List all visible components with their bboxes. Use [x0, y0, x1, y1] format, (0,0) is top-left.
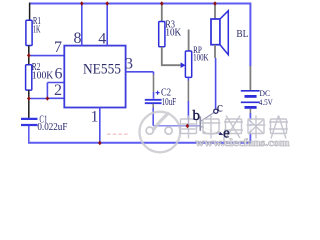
wire: node down to C1 [28, 99, 30, 119]
svg-text:2: 2 [54, 82, 62, 99]
svg-text:1K: 1K [33, 24, 41, 35]
wire: pin 7 [29, 55, 65, 57]
plus sign of C2 [156, 91, 160, 95]
svg-text:100K: 100K [32, 70, 54, 81]
wire: pin3 corner down to C2 [153, 72, 155, 75]
svg-text:100K: 100K [193, 53, 209, 63]
speaker BL [214, 4, 216, 19]
junction node: speaker on rail [213, 1, 217, 6]
wire: pin6/pin2 vertical link [46, 83, 48, 99]
watermark pink dashes [107, 133, 128, 135]
junction node: R2/C1/pin2 [27, 96, 31, 101]
transistor Q1 base bar [199, 117, 201, 131]
wire: pin 8 [81, 4, 83, 46]
resistor R2 [26, 65, 32, 90]
svg-text:6: 6 [55, 65, 63, 82]
capacitor C2 [145, 99, 162, 101]
wire: pin 1 to ground [99, 108, 101, 143]
svg-text:www.elecfans.com: www.elecfans.com [196, 138, 290, 149]
potentiometer RP [188, 30, 190, 52]
svg-text:10K: 10K [165, 28, 182, 39]
svg-text:3: 3 [125, 56, 133, 73]
op-amp U1: NE555 timer box [64, 46, 125, 108]
wire: R2 down to node [28, 90, 30, 98]
wire: R3 bottom to wiper [162, 47, 181, 65]
resistor R3 [161, 4, 163, 22]
capacitor C1 [21, 118, 38, 120]
battery DC 4.5V [241, 90, 260, 92]
wire: pin 3 output [126, 71, 154, 73]
wire: top supply rail [30, 4, 251, 67]
wire: C2 down to transistor base [152, 104, 154, 108]
watermark CJK text approximation [179, 116, 288, 139]
wire: emitter to ground [223, 137, 225, 143]
junction node: pin6/pin2 link [46, 96, 50, 101]
transistor emitter line [200, 126, 221, 134]
svg-text:4.5V: 4.5V [259, 97, 274, 107]
transistor emitter arrow [219, 132, 224, 135]
wire: pin 2 [47, 97, 64, 99]
junction node: R3 on rail [160, 1, 164, 6]
wire: bottom ground rail [28, 142, 250, 144]
wire: battery bottom to ground rail [249, 109, 251, 113]
wiper arrow into RP [181, 62, 186, 68]
wire: pin 6 [47, 82, 64, 84]
svg-text:b: b [193, 108, 201, 124]
wire: right edge gray segment to battery [249, 66, 251, 90]
junction node: RP/base [186, 124, 190, 129]
wire: pin2 node to R2/C1 node [29, 98, 48, 100]
wire: pin 4 [106, 4, 108, 46]
svg-text:c: c [217, 101, 223, 116]
svg-text:8: 8 [74, 30, 82, 47]
junction node: pin4 on rail [105, 1, 109, 6]
transistor collector terminal circle [214, 109, 218, 113]
svg-text:BL: BL [236, 29, 248, 40]
junction node: R1/R2/pin7 [27, 53, 31, 58]
svg-text:7: 7 [54, 39, 62, 56]
wire: RP bottom to base node [187, 77, 189, 80]
watermark logo circle [140, 112, 181, 153]
svg-text:1: 1 [91, 108, 99, 125]
wire: base horizontal [153, 125, 199, 127]
junction node: pin1 on ground rail [98, 141, 102, 146]
wire: top rail drop to R1 [29, 3, 31, 21]
wire: C1 to ground rail [28, 126, 30, 143]
junction node: pin8 on rail [80, 1, 84, 6]
wire: speaker bottom to collector [214, 45, 216, 58]
transistor collector line [200, 113, 214, 122]
svg-text:NE555: NE555 [83, 61, 121, 77]
wire: base segment redrawn over watermark [178, 125, 200, 127]
svg-text:4: 4 [98, 30, 106, 47]
svg-text:0.022uF: 0.022uF [37, 122, 67, 133]
svg-text:10uF: 10uF [162, 97, 177, 108]
svg-text:e: e [223, 126, 230, 142]
resistor R1 [26, 20, 32, 45]
wire: R1 to R2 [28, 46, 30, 65]
